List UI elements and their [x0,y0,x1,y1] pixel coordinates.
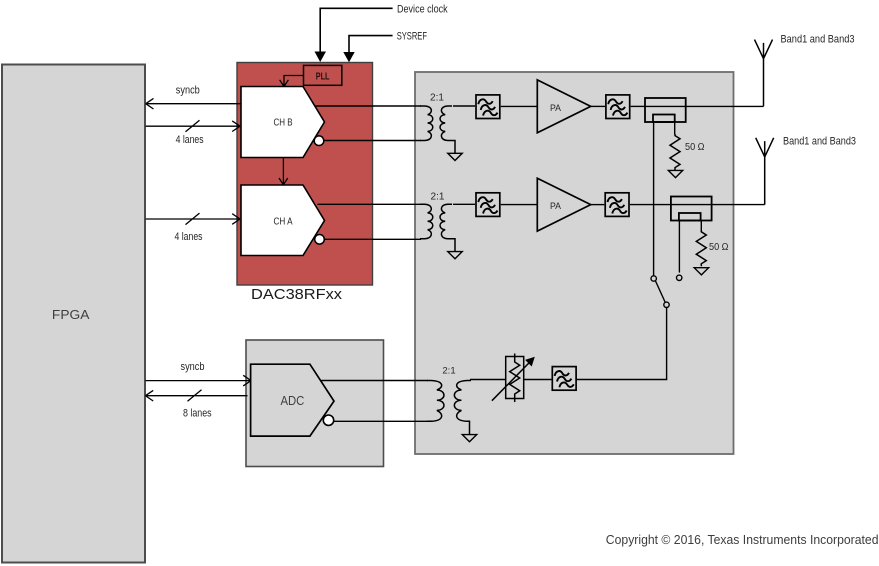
svg-text:PA: PA [550,103,562,114]
wire 8 lanes from ADC [145,390,247,402]
wire 4 lanes to CH A [146,213,241,225]
PLL U2 [304,65,342,85]
svg-text:Band1 and Band3: Band1 and Band3 [781,33,855,45]
power amplifier PA2 [537,178,590,231]
balun T3 2:1 [427,381,471,435]
wire T1 to BPF FL1 [453,105,475,107]
wire PLL to CH B clock [280,76,304,87]
svg-text:Device clock: Device clock [397,3,448,15]
wire switch pole to RX filter [577,308,667,380]
ground for T3 [462,435,476,442]
balun T2 2:1 [420,204,455,251]
wire PA1 to BPF FL2 [591,105,605,107]
band-pass filter FL1 [476,95,500,119]
wire CH B outm to balun T1 [324,140,421,142]
wire CH B to CH A [279,158,288,185]
wire through DC2 to antenna ANT2 [671,204,765,206]
antenna ANT1 [755,40,773,107]
ground for R1 [668,170,682,177]
wire ADC inp to balun T3 [321,380,428,382]
svg-text:DAC38RFxx: DAC38RFxx [251,287,343,303]
wire DC2 isolated port to R2 [700,221,702,231]
switch S1 contact from DC1 [651,276,656,281]
SYSREF input [349,36,393,53]
Device clock input [320,8,392,52]
svg-text:4 lanes: 4 lanes [175,231,203,243]
ADC core [251,364,334,436]
directional coupler DC1 [645,98,686,122]
band-pass filter FL4 [605,193,629,217]
wire ADC inm to balun T3 [334,420,428,422]
ground for T1 [448,153,462,160]
wire FL4 to coupler DC2 [630,204,671,206]
wire DC1 isolated port to R1 [674,122,677,134]
wire DC2 coupled port down to switch [678,221,680,273]
band-pass filter FL5 [552,367,576,391]
wire T2 to BPF FL3 [453,203,475,205]
CH A complement output bubble [315,235,325,245]
switch S1 contact from DC2 [677,275,682,280]
wire DC1 coupled port down to switch [653,122,655,276]
band-pass filter FL2 [606,95,630,119]
svg-text:2:1: 2:1 [430,93,444,104]
wire syncb ADC [146,375,252,386]
svg-text:ADC: ADC [280,393,304,408]
svg-text:syncb: syncb [176,85,200,97]
resistor R2 50 ohm [696,230,706,266]
switch S1 lever [656,281,666,303]
band-pass filter FL3 [476,193,500,217]
wire CH A outp to balun T2 [317,203,421,205]
svg-text:8 lanes: 8 lanes [183,407,212,419]
svg-text:50 Ω: 50 Ω [685,142,705,153]
switch S1 pole [664,302,669,307]
wire FL1 to PA1 [501,105,538,107]
balun T1 2:1 [420,106,455,153]
FPGA block U_FPGA [2,65,145,563]
svg-text:2:1: 2:1 [431,191,445,202]
ADC complement input bubble [323,415,333,425]
svg-text:2:1: 2:1 [442,366,455,377]
svg-text:syncb: syncb [181,361,205,373]
svg-text:Band1 and Band3: Band1 and Band3 [783,136,856,148]
resistor R1 50 ohm [670,134,680,170]
wire FL2 to coupler DC1 [631,105,645,107]
wire CH B outp to balun T1 [316,105,421,107]
wire through DC1 to antenna ANT1 [645,105,764,107]
svg-text:CH A: CH A [273,216,292,228]
ground for T2 [448,252,462,259]
wire CH A outm to balun T2 [324,238,421,240]
RF front-end block [415,72,734,454]
wire FL5 to attenuator AT1 [524,379,552,381]
svg-text:Copyright © 2016, Texas Instru: Copyright © 2016, Texas Instruments Inco… [606,532,879,547]
svg-text:PA: PA [550,201,562,212]
DAC38RFxx block U1 [237,63,373,286]
svg-text:PLL: PLL [316,71,330,82]
svg-text:CH B: CH B [273,117,292,129]
CH B complement output bubble [314,136,324,146]
power amplifier PA1 [537,80,590,133]
antenna ANT2 [756,138,774,205]
ground for R2 [694,268,708,275]
svg-text:50 Ω: 50 Ω [709,242,729,253]
directional coupler DC2 [671,197,712,221]
DAC channel CH B [241,87,325,158]
wire AT1 to balun T3 [470,379,506,381]
wire 4 lanes to CH B [146,120,241,132]
DAC channel CH A [241,185,325,256]
variable attenuator AT1 [506,357,524,399]
ADC block enclosure [246,340,384,467]
wire FL3 to PA2 [501,204,538,206]
svg-text:4 lanes: 4 lanes [176,134,204,146]
svg-text:SYSREF: SYSREF [397,31,427,43]
wire PA2 to BPF FL4 [591,204,605,206]
wire syncb DAC [146,98,241,109]
svg-text:FPGA: FPGA [52,308,90,322]
